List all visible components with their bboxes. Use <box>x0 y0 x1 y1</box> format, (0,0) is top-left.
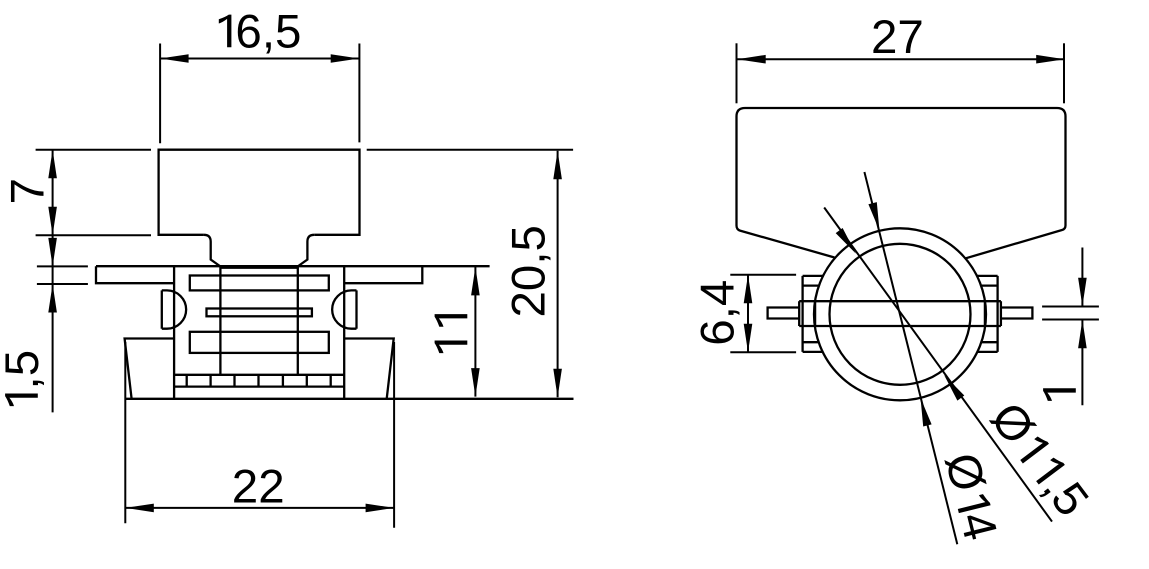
terminal comb bottom <box>174 385 344 387</box>
leader dia11,5 line <box>824 208 1052 522</box>
svg-text:4: 4 <box>949 507 1007 545</box>
leader dia14 line <box>864 172 957 544</box>
rib middle <box>207 309 312 317</box>
dim 1,5 label <box>0 350 49 406</box>
dim 6,4 extension bottom <box>730 351 796 353</box>
dim 22 extension right <box>393 342 395 528</box>
slot chord top <box>799 300 1001 302</box>
cap top extension line right <box>367 149 573 151</box>
flange top edge with extension <box>96 265 490 267</box>
svg-text:6,4: 6,4 <box>691 280 744 346</box>
dia11,5 label <box>980 393 1099 526</box>
rib lower <box>190 332 329 353</box>
boss left verticals <box>799 301 815 326</box>
pin right <box>1001 308 1033 319</box>
svg-text:27: 27 <box>871 11 924 64</box>
knob outline <box>737 108 1066 258</box>
terminal comb top <box>174 374 344 376</box>
dim 6,4 label <box>691 280 744 346</box>
plunger vertical right <box>297 266 299 375</box>
housing side left <box>173 266 175 399</box>
dim 1 line lower <box>1078 320 1087 406</box>
flange right end <box>344 266 422 283</box>
dim 27 extension left <box>736 43 738 103</box>
dim 16,5 extension left <box>159 44 161 144</box>
svg-text:7: 7 <box>1 178 54 204</box>
dim 6,4 extension top <box>730 274 796 276</box>
base wing left <box>125 339 175 399</box>
svg-text:,5: ,5 <box>0 350 49 390</box>
base wing right <box>344 339 394 399</box>
bushing inner circle <box>830 244 971 385</box>
side clip left <box>162 290 186 328</box>
dim 7 label <box>1 178 54 204</box>
cap top extension line left <box>36 149 151 151</box>
dim 11 line <box>471 267 480 397</box>
plunger shoulder bottom edge <box>220 267 298 269</box>
tab left <box>803 276 823 352</box>
tab right <box>977 276 998 352</box>
dim 16,5 label <box>219 5 302 58</box>
cap stem neck right <box>298 235 314 266</box>
dim 20,5 line <box>553 151 562 397</box>
svg-text:22: 22 <box>232 461 285 514</box>
dim 27 extension right <box>1063 43 1065 103</box>
side clip right <box>332 290 356 328</box>
dim 22 line <box>125 504 394 513</box>
flange left end <box>96 266 174 283</box>
dim 22 label <box>232 461 285 514</box>
dia14 label <box>934 448 1007 545</box>
cap bottom extension line <box>36 234 151 236</box>
dim 11 label <box>435 314 468 353</box>
pin left <box>768 308 800 319</box>
svg-text:20,5: 20,5 <box>502 225 555 317</box>
flange extension dash upper <box>37 265 88 267</box>
dim 20,5 label <box>502 225 555 317</box>
dim 27 label <box>871 11 924 64</box>
dim 16,5 extension right <box>358 44 360 143</box>
dim 1 label <box>1043 388 1076 401</box>
dim 1 extension bottom <box>1042 319 1099 321</box>
dim 6,4 line <box>744 275 753 353</box>
rib upper <box>190 276 329 291</box>
plunger vertical left <box>219 266 221 375</box>
bushing outer circle <box>814 228 986 400</box>
cap stem neck left <box>204 235 220 266</box>
terminal comb teeth <box>187 375 331 387</box>
flange extension dash lower <box>37 283 88 285</box>
svg-text:Ø: Ø <box>980 393 1045 454</box>
svg-text:Ø: Ø <box>934 448 994 497</box>
dim 22 extension left <box>124 342 126 523</box>
dim 7 and 1,5 line <box>48 150 57 413</box>
slot chord bottom <box>799 325 1001 327</box>
svg-text:6,5: 6,5 <box>235 5 301 58</box>
dim 16,5 line <box>160 54 359 63</box>
dim 27 line <box>737 55 1064 64</box>
base bottom edge with extension <box>125 398 573 400</box>
boss right verticals <box>985 301 1001 326</box>
button cap <box>159 150 360 235</box>
dim 1 line upper <box>1078 248 1087 307</box>
dim 1 extension top <box>1042 306 1099 308</box>
svg-text:,5: ,5 <box>1032 463 1098 527</box>
housing side right <box>343 266 345 399</box>
